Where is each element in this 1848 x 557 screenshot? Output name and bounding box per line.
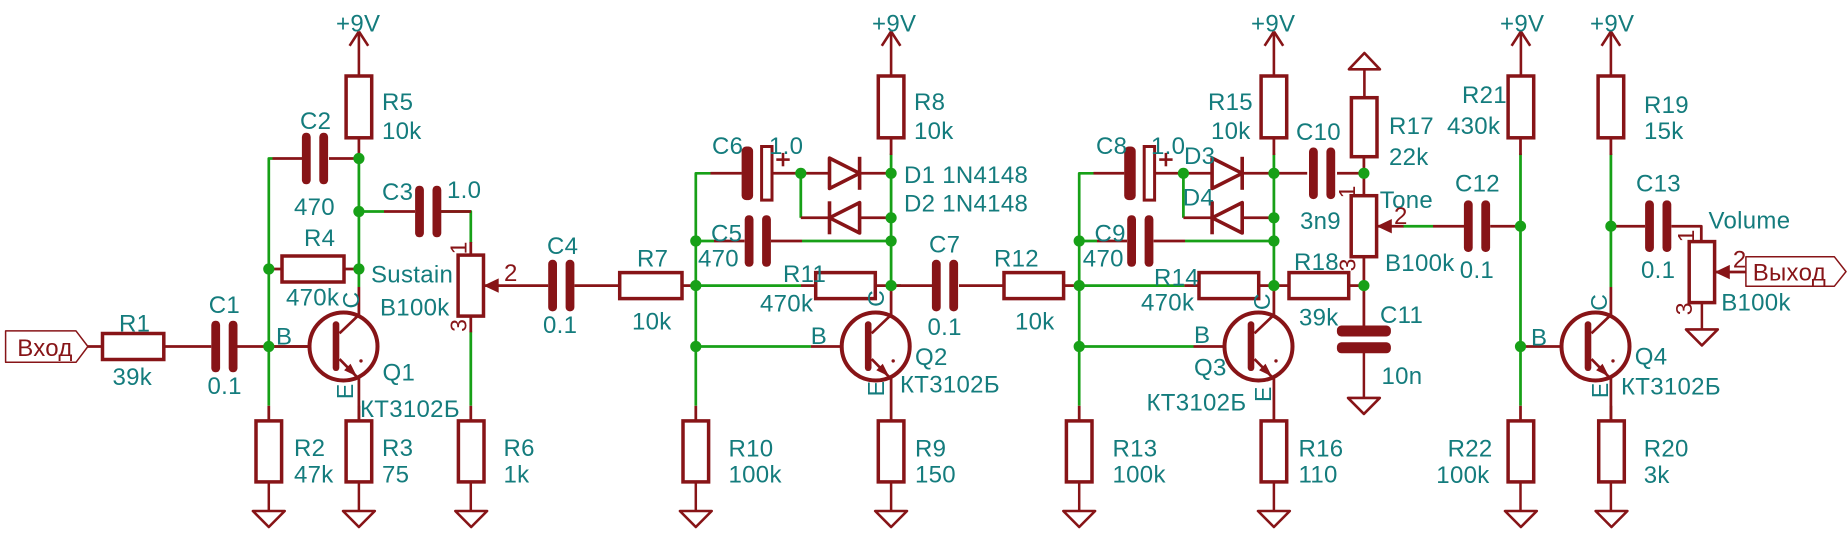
svg-text:10k: 10k xyxy=(914,118,954,145)
svg-text:1: 1 xyxy=(445,242,471,255)
svg-text:КТ3102Б: КТ3102Б xyxy=(1621,373,1721,400)
svg-text:Sustain: Sustain xyxy=(371,262,453,289)
svg-text:B100k: B100k xyxy=(380,295,450,322)
svg-text:КТ3102Б: КТ3102Б xyxy=(900,372,1000,399)
svg-text:10n: 10n xyxy=(1382,363,1423,390)
svg-text:1.0: 1.0 xyxy=(1151,133,1185,160)
svg-text:39k: 39k xyxy=(113,364,153,391)
svg-text:Вход: Вход xyxy=(17,335,72,362)
svg-text:3: 3 xyxy=(1671,302,1697,315)
svg-text:R17: R17 xyxy=(1389,113,1434,140)
svg-text:+9V: +9V xyxy=(1590,11,1634,38)
svg-text:470k: 470k xyxy=(760,291,814,318)
svg-text:R1: R1 xyxy=(119,311,150,338)
svg-text:D2 1N4148: D2 1N4148 xyxy=(904,191,1028,218)
svg-text:C12: C12 xyxy=(1455,171,1500,198)
svg-text:C9: C9 xyxy=(1095,221,1126,248)
svg-text:10k: 10k xyxy=(1015,309,1055,336)
svg-text:R20: R20 xyxy=(1644,436,1689,463)
svg-text:1.0: 1.0 xyxy=(769,133,803,160)
svg-text:100k: 100k xyxy=(1113,461,1167,488)
svg-text:C11: C11 xyxy=(1380,302,1423,329)
svg-text:150: 150 xyxy=(915,461,956,488)
svg-text:430k: 430k xyxy=(1447,113,1501,140)
svg-text:47k: 47k xyxy=(294,461,334,488)
svg-text:+9V: +9V xyxy=(336,11,380,38)
svg-text:Q3: Q3 xyxy=(1194,355,1227,382)
svg-text:2: 2 xyxy=(1394,203,1408,230)
svg-text:C10: C10 xyxy=(1296,119,1341,146)
svg-text:470k: 470k xyxy=(1141,290,1195,317)
svg-text:R9: R9 xyxy=(915,436,946,463)
svg-text:R12: R12 xyxy=(994,246,1039,273)
svg-text:3: 3 xyxy=(1335,259,1361,272)
svg-text:15k: 15k xyxy=(1644,118,1684,145)
svg-text:Q4: Q4 xyxy=(1635,343,1668,370)
svg-text:B100k: B100k xyxy=(1721,290,1791,317)
svg-text:C13: C13 xyxy=(1636,171,1681,198)
svg-text:R14: R14 xyxy=(1154,265,1199,292)
svg-text:B: B xyxy=(1194,322,1210,349)
svg-text:R11: R11 xyxy=(783,261,826,288)
svg-text:E: E xyxy=(1250,387,1276,402)
svg-text:2: 2 xyxy=(504,260,518,287)
svg-text:1k: 1k xyxy=(504,461,531,488)
svg-text:0.1: 0.1 xyxy=(543,312,577,339)
svg-text:C: C xyxy=(338,292,364,309)
svg-text:C2: C2 xyxy=(300,108,331,135)
svg-text:3: 3 xyxy=(445,319,471,332)
svg-text:B: B xyxy=(811,323,827,350)
svg-text:R7: R7 xyxy=(637,246,668,273)
svg-text:22k: 22k xyxy=(1389,144,1429,171)
svg-text:D1 1N4148: D1 1N4148 xyxy=(904,162,1028,189)
svg-text:1.0: 1.0 xyxy=(447,177,481,204)
svg-text:R16: R16 xyxy=(1299,436,1344,463)
svg-text:39k: 39k xyxy=(1299,305,1339,332)
svg-text:C: C xyxy=(863,290,889,307)
svg-text:R18: R18 xyxy=(1294,249,1339,276)
svg-text:C6: C6 xyxy=(712,133,743,160)
svg-text:C5: C5 xyxy=(711,221,742,248)
svg-text:R15: R15 xyxy=(1208,89,1253,116)
svg-text:0.1: 0.1 xyxy=(1460,257,1494,284)
svg-text:C: C xyxy=(1586,294,1612,311)
svg-text:+9V: +9V xyxy=(872,11,916,38)
svg-text:C8: C8 xyxy=(1096,133,1127,160)
svg-text:75: 75 xyxy=(382,461,409,488)
svg-text:Volume: Volume xyxy=(1709,208,1791,235)
svg-text:100k: 100k xyxy=(729,461,783,488)
svg-text:R8: R8 xyxy=(914,89,945,116)
svg-text:D3: D3 xyxy=(1184,143,1215,170)
svg-text:R19: R19 xyxy=(1644,92,1689,119)
svg-text:C3: C3 xyxy=(382,179,413,206)
svg-text:R4: R4 xyxy=(304,225,335,252)
svg-text:470: 470 xyxy=(294,194,335,221)
svg-text:0.1: 0.1 xyxy=(1641,257,1675,284)
svg-text:1: 1 xyxy=(1673,230,1699,243)
svg-text:R21: R21 xyxy=(1462,82,1507,109)
svg-text:3k: 3k xyxy=(1644,462,1671,489)
svg-text:R22: R22 xyxy=(1448,436,1493,463)
svg-text:470: 470 xyxy=(1083,246,1124,273)
svg-text:100k: 100k xyxy=(1436,462,1490,489)
svg-text:C1: C1 xyxy=(209,292,240,319)
svg-text:470k: 470k xyxy=(286,285,340,312)
svg-text:2: 2 xyxy=(1733,246,1747,273)
svg-text:E: E xyxy=(1587,383,1613,398)
svg-text:КТ3102Б: КТ3102Б xyxy=(360,396,460,423)
svg-text:10k: 10k xyxy=(382,118,422,145)
svg-text:B: B xyxy=(276,323,292,350)
svg-text:B100k: B100k xyxy=(1385,250,1455,277)
svg-text:Q1: Q1 xyxy=(383,360,416,387)
svg-text:C4: C4 xyxy=(547,233,578,260)
svg-text:C: C xyxy=(1249,293,1275,310)
svg-text:R5: R5 xyxy=(382,89,413,116)
svg-text:R13: R13 xyxy=(1113,436,1158,463)
svg-text:3n9: 3n9 xyxy=(1300,208,1341,235)
svg-text:+9V: +9V xyxy=(1500,11,1544,38)
svg-text:Q2: Q2 xyxy=(915,344,948,371)
svg-text:470: 470 xyxy=(698,246,739,273)
svg-text:+9V: +9V xyxy=(1251,11,1295,38)
svg-text:0.1: 0.1 xyxy=(928,314,962,341)
svg-text:C7: C7 xyxy=(929,232,960,259)
svg-text:10k: 10k xyxy=(1211,118,1251,145)
svg-text:B: B xyxy=(1531,325,1547,352)
svg-text:10k: 10k xyxy=(632,309,672,336)
svg-text:1: 1 xyxy=(1334,186,1360,199)
svg-text:R2: R2 xyxy=(294,435,325,462)
svg-text:0.1: 0.1 xyxy=(208,373,242,400)
svg-text:R10: R10 xyxy=(729,436,774,463)
svg-text:R6: R6 xyxy=(504,435,535,462)
svg-text:Выход: Выход xyxy=(1753,260,1826,287)
svg-text:E: E xyxy=(863,381,889,396)
svg-text:E: E xyxy=(332,384,358,399)
svg-text:D4: D4 xyxy=(1183,184,1214,211)
svg-text:КТ3102Б: КТ3102Б xyxy=(1147,390,1247,417)
svg-text:R3: R3 xyxy=(382,435,413,462)
svg-text:110: 110 xyxy=(1299,461,1338,488)
